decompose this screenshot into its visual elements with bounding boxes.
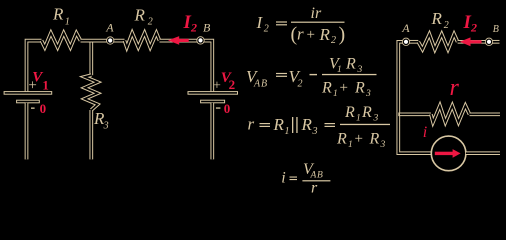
svg-text:0: 0: [40, 101, 47, 116]
equation 1: I2 = ir/(r+R2): [256, 5, 346, 46]
svg-text:R: R: [301, 115, 313, 134]
battery V2: [188, 70, 238, 159]
svg-text:R: R: [344, 104, 355, 121]
wire: left rail from V1 up and top wire to R1: [27, 41, 42, 92]
svg-text:2: 2: [444, 20, 449, 31]
svg-text:i: i: [423, 124, 427, 141]
battery V1: [4, 70, 52, 160]
svg-text:+: +: [355, 131, 363, 147]
svg-text:+: +: [340, 80, 348, 96]
node A (left circuit): [105, 20, 114, 44]
svg-text:A: A: [253, 78, 261, 89]
svg-text:+: +: [213, 79, 221, 94]
svg-text:r: r: [311, 180, 318, 197]
svg-text:1: 1: [333, 89, 338, 99]
svg-text:R: R: [134, 6, 146, 25]
equation 3: r = R1 || R3 = R1R3/(R1+R3): [248, 104, 391, 150]
svg-text:R: R: [273, 115, 285, 134]
svg-text:B: B: [203, 21, 211, 35]
wire: node B stub to right edge: [489, 40, 500, 44]
svg-text:ir: ir: [311, 5, 322, 22]
equation 2: VAB = V2 - V1R3/(R1+R3): [246, 56, 377, 100]
svg-text:B: B: [261, 78, 267, 89]
wire: R2 to node B to top-right corner down to V2: [160, 41, 213, 92]
resistor r: [431, 75, 470, 122]
svg-text:R: R: [431, 9, 443, 28]
svg-text:i: i: [281, 170, 285, 187]
wire: R1 to R2 through junction: [81, 39, 125, 43]
resistor R2 (left circuit): [125, 6, 160, 48]
svg-text:R: R: [336, 131, 347, 148]
svg-text:3: 3: [312, 126, 318, 137]
node B (left circuit): [197, 21, 211, 44]
svg-text:3: 3: [103, 121, 109, 132]
resistor R3: [85, 75, 109, 131]
svg-text:2: 2: [148, 17, 153, 28]
svg-text:B: B: [317, 171, 323, 181]
svg-text:2: 2: [190, 20, 197, 34]
resistor R1: [42, 5, 81, 48]
wire: junction rail down to R3: [89, 41, 93, 76]
wire: R3 down to bottom stub: [89, 110, 93, 159]
svg-text:A: A: [401, 21, 410, 35]
equation 4: i = VAB/r: [281, 161, 330, 197]
wire: rail to resistor r: [398, 112, 431, 116]
current arrow I2 (left circuit): [168, 12, 197, 45]
svg-text:R: R: [321, 80, 332, 97]
svg-text:1: 1: [356, 114, 361, 124]
current arrow I2 (right circuit): [460, 12, 482, 46]
wire: resistor r to right edge: [470, 112, 501, 116]
svg-text:r: r: [450, 75, 460, 101]
svg-text:r: r: [297, 25, 304, 44]
svg-text:1: 1: [65, 17, 70, 28]
svg-text:2: 2: [331, 35, 336, 46]
node B (right circuit): [485, 24, 499, 45]
svg-text:1: 1: [42, 77, 49, 92]
svg-text:R: R: [354, 80, 365, 97]
svg-text:2: 2: [470, 20, 477, 34]
wire: current source to right edge: [466, 151, 500, 155]
svg-text:): ): [339, 24, 346, 46]
svg-text:3: 3: [380, 140, 386, 150]
svg-text:+: +: [307, 27, 315, 43]
svg-text:B: B: [493, 24, 499, 35]
wire: R2 to node B (right circuit): [458, 40, 489, 44]
svg-text:0: 0: [224, 101, 231, 116]
svg-text:1: 1: [285, 126, 290, 137]
svg-text:R: R: [369, 131, 380, 148]
svg-text:1: 1: [337, 65, 342, 75]
node A (right circuit): [401, 21, 410, 45]
svg-text:R: R: [361, 104, 372, 121]
wire: right circuit left rail (A down to bottom row): [398, 42, 431, 153]
svg-text:R: R: [52, 5, 64, 24]
current source i: [423, 124, 466, 171]
svg-text:2: 2: [298, 78, 303, 89]
svg-text:2: 2: [264, 24, 269, 35]
svg-text:3: 3: [357, 65, 363, 75]
svg-text:2: 2: [229, 77, 236, 92]
svg-text:A: A: [105, 20, 114, 34]
svg-text:r: r: [248, 115, 255, 134]
svg-text:R: R: [319, 25, 331, 44]
svg-text:3: 3: [365, 89, 371, 99]
svg-text:R: R: [345, 56, 356, 73]
wire: node A to R2 (right circuit): [406, 40, 418, 44]
resistor R2 (right circuit): [418, 9, 457, 49]
svg-text:1: 1: [348, 140, 353, 150]
svg-text:3: 3: [373, 114, 379, 124]
